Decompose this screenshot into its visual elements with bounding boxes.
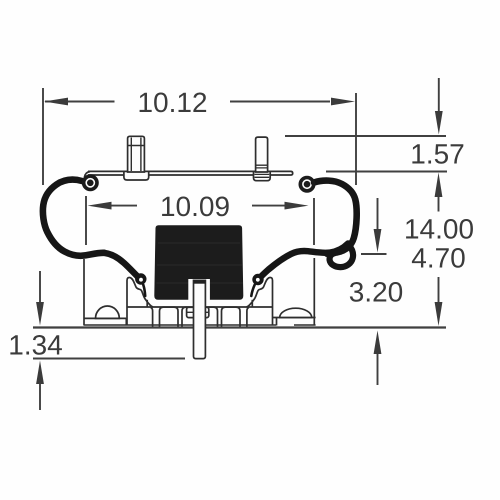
label 4.70: [412, 248, 465, 268]
rubber bumper: [154, 225, 243, 299]
left bead curl ring: [84, 176, 97, 189]
arrowhead 10.09 right: [285, 202, 309, 210]
arrowhead 10.12 left: [44, 98, 68, 106]
rib slot edge left: [151, 307, 153, 326]
dim 1.34 up arrow tail: [39, 382, 41, 410]
piston rib section top line: [127, 306, 273, 308]
dim 10.09 left extension line: [85, 196, 87, 245]
dim 14.00 dimension line lower segment: [438, 277, 440, 305]
bottom nut / washer: [187, 307, 209, 317]
bellows left bead blob: [135, 273, 146, 284]
piston bottom edge left: [84, 324, 276, 326]
arrowhead 1.57 down: [435, 111, 443, 135]
right bead curl center dot: [304, 181, 311, 188]
dim 1.57 arrow tail: [438, 78, 440, 113]
bellows right upper lobe: [314, 181, 357, 254]
rib slot B2: [204, 307, 218, 326]
label 10.09: [162, 196, 229, 216]
dim 10.12 right extension line: [355, 93, 357, 185]
bumper pedestal right edge: [251, 300, 253, 307]
top bead plate: [88, 171, 293, 175]
arrowhead 10.12 right: [331, 98, 355, 106]
dim 3.20 up arrow tail: [377, 352, 379, 385]
left stud flange: [124, 171, 149, 180]
dim 10.12 dimension line right segment: [230, 101, 330, 103]
rib slot C: [222, 307, 241, 326]
bottom mounting stud: [194, 280, 206, 358]
arrowhead 14.00 down: [435, 302, 443, 326]
bellows right bead blob: [252, 274, 263, 285]
right skirt arch: [280, 308, 312, 317]
label 1.57: [412, 144, 463, 164]
dim 10.09 dimension line left segment: [110, 205, 137, 207]
bellows right bottom tail: [251, 285, 255, 297]
right bead curl ring: [300, 178, 313, 191]
left skirt outer wall: [83, 259, 85, 326]
bellows left bottom tail: [143, 285, 145, 297]
piston bell left wall and shoulder: [127, 278, 153, 326]
left skirt inner step: [125, 318, 127, 325]
right stud body: [256, 137, 268, 172]
bottom base line: [33, 326, 446, 328]
rib slot A: [160, 307, 179, 326]
arrowhead 10.09 left: [88, 202, 112, 210]
label 14.00: [406, 219, 473, 239]
dim 3.20 top level short line: [361, 253, 387, 255]
bumper stud slot: [188, 279, 210, 300]
bumper texture streaks: [157, 243, 244, 283]
dim 1.34 down arrow tail: [39, 271, 41, 304]
dim 1.57 top extension line: [285, 135, 446, 137]
bellows right girdle descent: [259, 244, 348, 279]
right stud flange: [254, 171, 271, 180]
stud dark cap: [194, 280, 206, 283]
rib slot edge right: [247, 307, 249, 326]
right skirt outer wall: [313, 258, 315, 326]
piston bell right wall and shoulder: [247, 278, 273, 326]
arrowhead 1.34 down: [36, 302, 44, 326]
right stud chamfer lines: [255, 165, 270, 177]
dim 10.09 right extension line: [313, 198, 315, 245]
bellows right lower lobe knot: [330, 245, 354, 268]
dim 10.09 dimension line right segment: [252, 205, 288, 207]
plate left end hook: [84, 172, 90, 178]
dim 1.57 bottom extension line (plate top level): [326, 171, 447, 173]
arrowhead 1.34 up: [36, 361, 44, 385]
label 3.20: [350, 282, 402, 302]
label 10.12: [140, 92, 207, 112]
arrowhead 3.20 down: [374, 229, 382, 253]
dim 10.12 dimension line left segment: [45, 101, 115, 103]
stud bottom level line: [33, 358, 185, 360]
left stud inner lines: [128, 138, 144, 172]
left skirt ledge: [84, 317, 126, 319]
arrowhead 14.00 up: [435, 173, 443, 198]
right skirt inner step: [276, 318, 278, 326]
arrowhead 3.20 up: [374, 331, 382, 355]
left stud body: [128, 136, 145, 172]
bellows left girdle descent: [104, 253, 139, 278]
bellows left upper lobe: [43, 180, 104, 256]
left skirt arch: [96, 306, 120, 318]
piston bottom edge right: [294, 324, 316, 326]
dim 14.00 dimension line upper segment: [438, 196, 440, 212]
right skirt ledge: [273, 317, 316, 319]
left bead curl center dot: [87, 180, 94, 187]
label 1.34: [10, 335, 62, 355]
rib slot B: [182, 307, 196, 326]
bumper pedestal left edge: [146, 300, 148, 307]
dim 3.20 down arrow tail: [377, 198, 379, 231]
dim 10.12 left extension line: [42, 88, 44, 185]
